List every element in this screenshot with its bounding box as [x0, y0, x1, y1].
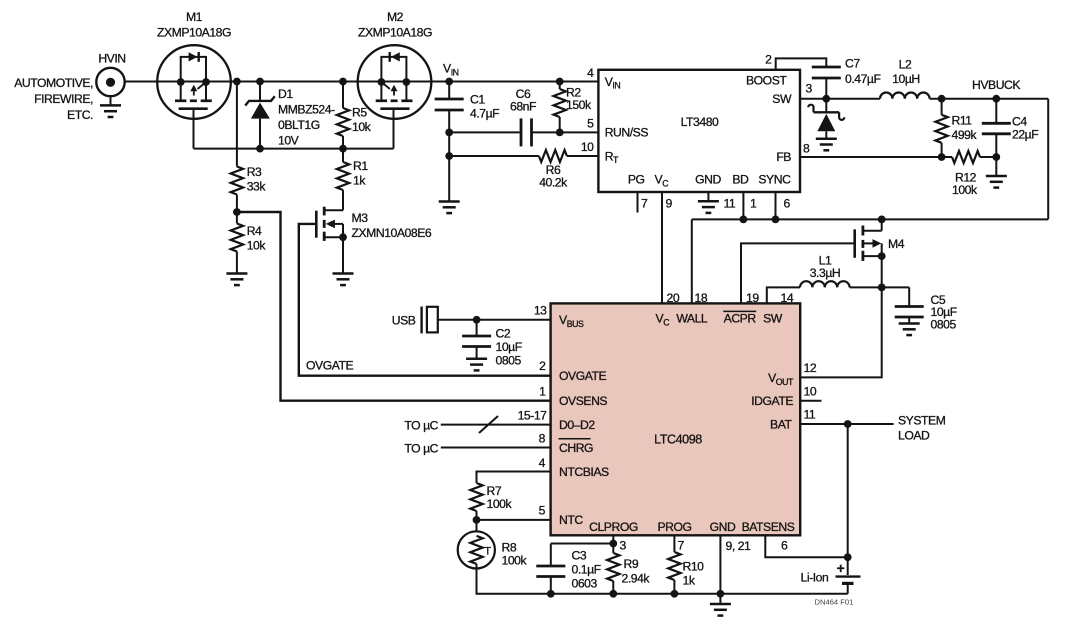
svg-text:SYSTEM: SYSTEM — [898, 414, 946, 428]
label M2 — [358, 10, 432, 40]
wire HVIN rail to VIN pin4 — [125, 81, 599, 83]
svg-text:C1: C1 — [470, 93, 485, 107]
svg-text:LT3480: LT3480 — [681, 115, 719, 129]
resistor R11 499k — [935, 99, 947, 161]
svg-text:R10: R10 — [683, 560, 705, 574]
connector USB plug — [392, 307, 438, 334]
svg-text:10k: 10k — [247, 239, 267, 253]
resistor R5 10k — [337, 78, 349, 153]
svg-text:10: 10 — [804, 385, 817, 399]
svg-text:3: 3 — [620, 539, 627, 553]
resistor R6 40.2k — [449, 150, 598, 162]
svg-text:R4: R4 — [247, 224, 262, 238]
wire PG stub pin7 — [637, 192, 639, 213]
transistor M4 — [855, 216, 886, 288]
svg-text:ZXMP10A18G: ZXMP10A18G — [157, 26, 231, 40]
svg-text:14: 14 — [781, 291, 794, 305]
wire SW pin14 riser — [767, 287, 800, 303]
svg-text:R3: R3 — [247, 165, 262, 179]
label TO uC lower — [404, 442, 438, 456]
svg-text:CHRG: CHRG — [559, 441, 593, 455]
svg-text:2: 2 — [765, 53, 772, 67]
wire VC pin9 down to LTC4098 pin20 — [661, 192, 663, 303]
svg-text:DN464 F01: DN464 F01 — [815, 598, 854, 607]
ground at LT3480 GND pin11 — [698, 192, 719, 213]
svg-text:CLPROG: CLPROG — [589, 520, 638, 534]
wire M3 gate OVGATE route to pin2 — [299, 224, 551, 376]
resistor R2 150k — [554, 78, 566, 137]
IC U1 LT3480 box — [598, 70, 800, 192]
label R10 — [683, 560, 705, 588]
svg-text:USB: USB — [392, 314, 416, 328]
label C3 — [572, 549, 601, 591]
svg-text:SYNC: SYNC — [758, 173, 791, 187]
svg-text:FIREWIRE,: FIREWIRE, — [34, 92, 93, 106]
capacitor C3 0.1uF 0603 — [536, 544, 565, 598]
wire NTC pin5 — [477, 519, 551, 521]
wire gate bus M1-M2 — [194, 109, 394, 149]
label R6 — [539, 163, 568, 190]
svg-text:ETC.: ETC. — [67, 108, 93, 122]
svg-text:1k: 1k — [683, 574, 696, 588]
inductor L2 10uH — [880, 92, 930, 98]
svg-text:D1: D1 — [278, 87, 293, 101]
wire BAT down to battery — [844, 424, 852, 575]
svg-text:4: 4 — [587, 66, 594, 80]
svg-text:6: 6 — [784, 197, 791, 211]
svg-text:HVBUCK: HVBUCK — [972, 78, 1020, 92]
svg-text:C4: C4 — [1012, 115, 1027, 129]
label C1 — [470, 93, 499, 121]
resistor R7 100k — [470, 483, 482, 524]
node HVIN input jack — [96, 52, 125, 97]
pin numbers LTC4098 — [518, 291, 817, 553]
svg-text:7: 7 — [678, 539, 685, 553]
thermistor R8 100k — [458, 520, 495, 594]
ground at HVIN jack — [100, 105, 121, 117]
svg-text:1: 1 — [750, 197, 757, 211]
capacitor C6 68nF — [449, 118, 598, 146]
svg-text:0BLT1G: 0BLT1G — [278, 118, 320, 132]
svg-text:R9: R9 — [624, 557, 639, 571]
diode D1 MMBZ5240BLT1G zener — [245, 78, 275, 153]
svg-text:PROG: PROG — [657, 520, 691, 534]
svg-text:0603: 0603 — [572, 577, 598, 591]
svg-text:LTC4098: LTC4098 — [654, 433, 702, 447]
svg-text:Li-Ion: Li-Ion — [801, 571, 829, 585]
svg-text:19: 19 — [746, 291, 759, 305]
svg-text:M3: M3 — [352, 211, 369, 225]
svg-text:C2: C2 — [496, 327, 511, 341]
transistor M2 ZXMP10A18G — [358, 45, 432, 119]
svg-text:NTCBIAS: NTCBIAS — [559, 465, 609, 479]
label TO uC upper — [404, 419, 438, 433]
svg-text:R1: R1 — [353, 159, 368, 173]
label M3 — [352, 211, 432, 240]
svg-text:10k: 10k — [352, 120, 372, 134]
label C6 — [510, 87, 536, 114]
svg-text:68nF: 68nF — [510, 100, 536, 114]
svg-text:C7: C7 — [845, 57, 860, 71]
pin labels LT3480 — [605, 74, 792, 189]
svg-text:20: 20 — [667, 291, 680, 305]
label R8 — [502, 541, 528, 568]
svg-text:0805: 0805 — [496, 354, 522, 368]
svg-text:+: + — [837, 560, 845, 576]
svg-text:9: 9 — [666, 197, 673, 211]
svg-text:11: 11 — [804, 408, 816, 422]
label R11 — [952, 114, 978, 143]
svg-text:WALL: WALL — [676, 312, 708, 326]
svg-text:ACPR: ACPR — [724, 312, 757, 326]
svg-text:PG: PG — [628, 173, 645, 187]
inductor L1 3.3uH — [800, 281, 850, 287]
ground below C4 — [986, 176, 1007, 188]
svg-text:18: 18 — [695, 291, 708, 305]
IC U2 LTC4098 box — [551, 303, 801, 535]
svg-text:BD: BD — [732, 173, 749, 187]
svg-text:R11: R11 — [952, 114, 973, 128]
node VIN — [443, 62, 459, 86]
svg-text:OVGATE: OVGATE — [306, 359, 354, 373]
wire VBUS pin13 — [438, 316, 551, 324]
label R7 — [487, 484, 513, 511]
label L2 — [892, 58, 920, 87]
wire L2 to HVBUCK and right edge — [930, 95, 1049, 220]
svg-text:R5: R5 — [352, 106, 367, 120]
wire SW pin3 line — [800, 95, 880, 103]
wire CLPROG pin3 — [551, 535, 617, 547]
svg-text:10: 10 — [581, 140, 594, 154]
svg-text:5: 5 — [587, 117, 594, 131]
svg-text:BOOST: BOOST — [746, 74, 787, 88]
svg-text:L2: L2 — [899, 58, 912, 72]
svg-text:10µH: 10µH — [892, 72, 920, 86]
label SYSTEM LOAD — [898, 414, 946, 443]
svg-text:ZXMN10A08E6: ZXMN10A08E6 — [352, 226, 432, 240]
svg-text:4.7µF: 4.7µF — [470, 107, 499, 121]
svg-text:OVSENS: OVSENS — [559, 394, 607, 408]
ground below C2 — [466, 359, 487, 371]
label R4 — [247, 224, 267, 253]
transistor M3 ZXMN10A08E6 — [316, 207, 347, 274]
label R1 — [353, 159, 368, 188]
wire BAT pin11 to system load — [800, 420, 893, 428]
svg-text:0.47µF: 0.47µF — [845, 72, 881, 86]
ground below R4 — [226, 274, 247, 286]
label Li-Ion — [801, 571, 829, 585]
label AUTOMOTIVE FIREWIRE ETC — [14, 76, 93, 122]
svg-text:22µF: 22µF — [1012, 128, 1038, 142]
svg-text:8: 8 — [539, 432, 546, 446]
pin numbers LT3480 — [581, 53, 813, 211]
svg-text:10V: 10V — [278, 134, 300, 148]
svg-text:C3: C3 — [572, 549, 587, 563]
svg-text:SW: SW — [772, 92, 792, 106]
pin labels LTC4098 — [559, 311, 795, 534]
resistor R9 2.94k — [607, 544, 619, 598]
wire OVSENS route to pin1 — [237, 212, 551, 401]
svg-text:FB: FB — [776, 150, 791, 164]
svg-text:LOAD: LOAD — [898, 429, 930, 443]
svg-text:RUN/SS: RUN/SS — [605, 126, 649, 140]
svg-text:AUTOMOTIVE,: AUTOMOTIVE, — [14, 76, 93, 90]
svg-text:2.94k: 2.94k — [622, 572, 651, 586]
svg-text:TO µC: TO µC — [404, 442, 438, 456]
wire bottom ground bus — [476, 593, 848, 595]
transistor M1 ZXMP10A18G — [157, 45, 231, 119]
battery BT1 Li-Ion — [836, 560, 861, 594]
svg-text:10µF: 10µF — [496, 340, 522, 354]
ground below C5 — [899, 324, 920, 336]
svg-text:HVIN: HVIN — [98, 52, 125, 66]
label R2 — [566, 86, 592, 113]
ground below M3 — [333, 274, 354, 286]
resistor R1 1k — [337, 149, 349, 211]
svg-text:15-17: 15-17 — [518, 409, 548, 423]
svg-text:12: 12 — [804, 361, 817, 375]
svg-text:8: 8 — [803, 142, 810, 156]
label OVGATE net — [306, 359, 354, 373]
svg-text:33k: 33k — [247, 180, 267, 194]
wire BD pin1 down — [740, 192, 748, 223]
svg-text:OVGATE: OVGATE — [559, 369, 607, 383]
svg-text:7: 7 — [641, 197, 648, 211]
svg-text:MMBZ524-: MMBZ524- — [278, 103, 335, 117]
svg-text:100k: 100k — [487, 497, 513, 511]
capacitor C5 10uF 0805 — [895, 287, 924, 323]
wire ACPR pin19 to M4 gate — [741, 243, 855, 303]
svg-text:499k: 499k — [952, 128, 978, 142]
wire C1 stack to ground — [445, 132, 453, 201]
svg-text:D0–D2: D0–D2 — [559, 418, 595, 432]
label R12 — [952, 171, 978, 198]
wire CHRG pin8 — [441, 447, 551, 449]
label M4 — [888, 237, 905, 251]
svg-text:6: 6 — [781, 539, 788, 553]
svg-text:2: 2 — [539, 359, 546, 373]
svg-text:3.3µH: 3.3µH — [810, 266, 841, 280]
svg-text:BATSENS: BATSENS — [742, 520, 795, 534]
svg-text:ZXMP10A18G: ZXMP10A18G — [358, 26, 432, 40]
svg-text:GND: GND — [695, 173, 721, 187]
label DN464 F01 — [815, 598, 854, 607]
ground below catch diode — [816, 139, 837, 151]
svg-text:13: 13 — [534, 304, 547, 318]
label C4 — [1012, 115, 1038, 142]
wire D0-D2 pins 15-17 — [441, 416, 551, 433]
label C5 — [931, 293, 957, 332]
label R9 — [622, 557, 651, 586]
svg-text:R7: R7 — [487, 484, 502, 498]
svg-text:150k: 150k — [566, 98, 592, 112]
wire GND pins 9 21 — [717, 535, 725, 604]
label M1 — [157, 10, 231, 40]
capacitor C4 22uF — [982, 99, 1011, 176]
svg-text:11: 11 — [724, 197, 736, 211]
svg-text:IDGATE: IDGATE — [751, 394, 793, 408]
wire L1 to C5 — [850, 284, 910, 292]
svg-text:9, 21: 9, 21 — [726, 539, 752, 553]
svg-text:100k: 100k — [952, 183, 978, 197]
svg-text:BAT: BAT — [770, 417, 792, 431]
wire jack ground stub — [110, 96, 112, 105]
svg-text:M4: M4 — [888, 237, 905, 251]
svg-text:40.2k: 40.2k — [539, 176, 568, 190]
ground below GND pin — [710, 604, 731, 616]
svg-text:NTC: NTC — [559, 513, 583, 527]
label C2 — [496, 327, 522, 368]
wire SYNC pin6 down — [772, 192, 780, 223]
label R5 — [352, 106, 372, 135]
wire IDGATE stub pin10 — [800, 400, 821, 402]
svg-text:M2: M2 — [387, 10, 404, 24]
resistor R3 33k — [231, 78, 243, 216]
capacitor C7 0.47uF boost — [776, 58, 841, 98]
capacitor C1 4.7uF — [435, 82, 464, 137]
node HVBUCK — [972, 78, 1020, 92]
svg-text:3: 3 — [806, 82, 813, 96]
svg-text:1k: 1k — [353, 174, 366, 188]
svg-text:SW: SW — [763, 312, 783, 326]
svg-text:R8: R8 — [502, 541, 517, 555]
wire NTCBIAS pin4 — [477, 472, 551, 484]
diode D2 schottky catch — [808, 99, 844, 139]
svg-text:GND: GND — [710, 520, 736, 534]
wire FB pin8 line — [800, 156, 942, 158]
svg-text:TO µC: TO µC — [404, 419, 438, 433]
resistor R10 1k — [668, 535, 680, 597]
svg-text:1: 1 — [539, 385, 546, 399]
label R3 — [247, 165, 267, 194]
svg-text:0.1µF: 0.1µF — [572, 563, 601, 577]
svg-text:T: T — [484, 546, 491, 558]
svg-text:0805: 0805 — [931, 318, 957, 332]
wire WALL bus row — [692, 219, 1048, 303]
label L1 — [810, 254, 841, 281]
capacitor C2 10uF 0805 — [462, 320, 491, 359]
svg-text:4: 4 — [539, 456, 546, 470]
wire VOUT pin12 route — [800, 287, 882, 377]
svg-text:100k: 100k — [502, 554, 528, 568]
wire BATSENS pin6 route — [765, 535, 847, 557]
svg-text:5: 5 — [539, 504, 546, 518]
label C7 — [845, 57, 881, 87]
resistor R12 100k — [942, 151, 1001, 163]
svg-text:M1: M1 — [186, 10, 203, 24]
ground below C1 — [439, 202, 460, 214]
resistor R4 10k — [231, 212, 243, 274]
label D1 — [278, 87, 335, 148]
